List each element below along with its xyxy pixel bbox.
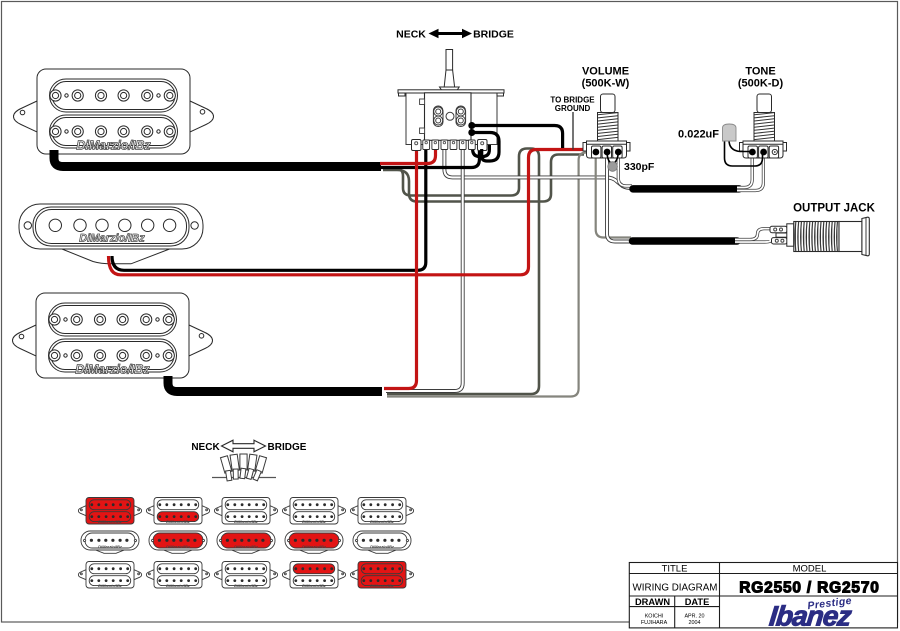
- capacitor 0.022uF: [723, 124, 737, 141]
- wire neck red to switch lug2: [380, 146, 436, 164]
- solder joint B: [468, 129, 475, 136]
- lever position 5: [253, 456, 267, 482]
- switch right terminal: [478, 140, 488, 151]
- switch left edge tabs: [420, 99, 425, 105]
- pos5 neck humbucker (off): [350, 498, 413, 525]
- svg-text:GROUND: GROUND: [555, 104, 591, 113]
- svg-text:NECK: NECK: [396, 29, 426, 41]
- wire jack cable to jack tip lug (white): [735, 229, 772, 240]
- svg-text:330pF: 330pF: [624, 161, 655, 173]
- svg-text:(500K-D): (500K-D): [738, 78, 784, 90]
- capacitor 330pF leads: [607, 153, 611, 163]
- wire volume lug1 ground to jack cable (gray): [596, 156, 631, 238]
- switch lever shaft: [440, 50, 460, 91]
- svg-text:KOICHI: KOICHI: [645, 613, 664, 619]
- svg-text:RG2550 / RG2570: RG2550 / RG2570: [739, 580, 879, 597]
- pickup N neck humbucker: [14, 69, 214, 154]
- pos5 bridge humbucker (both coils on): [350, 562, 413, 589]
- svg-text:FUJIHARA: FUJIHARA: [641, 620, 668, 626]
- wire middle pickup black to switch lug1: [112, 146, 426, 270]
- jack middle tab: [776, 233, 788, 237]
- svg-text:APR. 20: APR. 20: [684, 613, 704, 619]
- shielded cable volume to tone: [633, 185, 739, 193]
- switch side plates: [406, 93, 497, 145]
- wire volume lug2 to jack cable (white): [607, 156, 631, 242]
- jack neck piece: [787, 224, 794, 246]
- svg-text:WIRING DIAGRAM: WIRING DIAGRAM: [633, 583, 718, 594]
- pos2 neck humbucker (inner coil on): [146, 498, 209, 525]
- switch lug 3: [441, 140, 448, 150]
- switch left terminal: [412, 140, 422, 151]
- lever position 1: [220, 456, 234, 482]
- jack sleeve lug: [772, 238, 788, 244]
- wire middle pickup red to volume lug1: [109, 150, 593, 275]
- svg-text:NECK: NECK: [191, 442, 220, 453]
- pos3 middle single (on): [217, 531, 275, 553]
- title block grid lines: [629, 563, 897, 628]
- lever position 4: [246, 454, 257, 479]
- wire bridge white to switch lug5 (white): [386, 146, 463, 391]
- svg-text:TONE: TONE: [745, 66, 775, 78]
- shielded cable to output jack: [633, 237, 738, 245]
- svg-text:DATE: DATE: [685, 597, 710, 607]
- switch lug 4: [450, 140, 457, 150]
- volume pot shaft: [598, 94, 619, 141]
- svg-text:2004: 2004: [689, 620, 701, 626]
- wire switch common B loop to right terminal (black): [472, 133, 499, 162]
- Ibanez logo wordmark: [768, 601, 853, 631]
- switch mounting plate: [398, 90, 504, 96]
- pos4 bridge humbucker (inner coil on): [282, 562, 345, 589]
- wire bridge red to switch left terminal: [384, 146, 417, 389]
- tone pot body: [740, 141, 787, 158]
- wire bridge gray to volume (gray): [387, 153, 592, 397]
- pos5 middle single (off): [353, 531, 411, 553]
- jack threaded barrel: [794, 222, 839, 252]
- capacitor 0.022uF leads: [729, 140, 750, 152]
- lever baseline: [212, 477, 276, 479]
- switch contact slot right: [456, 106, 466, 127]
- wire tone cable to tone lug2 (white): [737, 155, 763, 191]
- pos2 bridge humbucker (off): [146, 562, 209, 589]
- jack tip lug: [770, 226, 787, 232]
- capacitor 330pF: [608, 162, 618, 172]
- switch lug 2: [432, 140, 439, 150]
- svg-text:MODEL: MODEL: [793, 564, 827, 575]
- pickup M middle single coil: [19, 204, 203, 264]
- to-bridge-ground pointer line: [572, 112, 574, 150]
- svg-text:Ibanez: Ibanez: [768, 601, 853, 631]
- svg-text:BRIDGE: BRIDGE: [268, 442, 307, 453]
- switch contact slot left: [433, 106, 443, 127]
- outline double arrow: [222, 440, 266, 452]
- jack smooth sleeve: [839, 222, 862, 252]
- jack flange: [862, 217, 869, 256]
- tone pot solder lugs: [749, 149, 756, 156]
- wire neck bare to volume casing (olive): [383, 155, 584, 202]
- wire volume lug3 to volume-tone cable (white): [618, 156, 632, 186]
- volume pot body: [583, 141, 630, 158]
- wire white switch lug3 to volume-tone cable (white): [444, 146, 632, 188]
- wire neck green to bridge ground bus (olive): [383, 149, 539, 395]
- pos4 neck humbucker (off): [282, 498, 345, 525]
- title block background: [629, 563, 897, 628]
- volume pot solder lugs: [593, 149, 600, 156]
- svg-text:(500K-W): (500K-W): [582, 78, 630, 90]
- tone pot shaft: [754, 94, 775, 141]
- pos3 neck humbucker (off): [214, 498, 277, 525]
- pos3 bridge humbucker (off): [214, 562, 277, 589]
- Ibanez logo Prestige script: [807, 595, 853, 612]
- svg-text:DRAWN: DRAWN: [635, 597, 670, 607]
- switch lug 5: [459, 140, 466, 150]
- wire neck black to switch lug6: [380, 150, 479, 168]
- pos2 middle single (on): [149, 531, 207, 553]
- double arrow neck-bridge: [429, 29, 473, 38]
- pos1 middle single (off): [81, 531, 139, 553]
- svg-text:OUTPUT JACK: OUTPUT JACK: [793, 203, 875, 215]
- shielded cable bridge pickup: [168, 376, 382, 392]
- lever position 2: [230, 454, 241, 479]
- switch center hole: [446, 112, 454, 120]
- pos1 neck humbucker (both coils on): [78, 498, 141, 525]
- switch body: [425, 93, 472, 141]
- svg-text:VOLUME: VOLUME: [582, 66, 629, 78]
- svg-text:0.022uF: 0.022uF: [678, 129, 719, 141]
- switch lug 6: [468, 140, 475, 150]
- shielded cable neck pickup: [54, 150, 381, 167]
- lever position 3: [240, 454, 247, 479]
- wire switch common A to volume lug1 (black): [472, 126, 563, 149]
- pos1 bridge humbucker (off): [78, 562, 141, 589]
- svg-text:BRIDGE: BRIDGE: [473, 29, 514, 41]
- pickup B bridge humbucker: [13, 293, 213, 378]
- switch lug 1: [423, 140, 475, 150]
- svg-text:TITLE: TITLE: [662, 564, 688, 575]
- pos4 middle single (on): [285, 531, 343, 553]
- wire switch lug6 jumper U (black): [473, 145, 490, 157]
- wire jack cable to jack sleeve lug (white): [735, 241, 771, 243]
- wire tone cable to tone lug1 (white): [737, 155, 752, 188]
- solder joint A: [468, 122, 475, 129]
